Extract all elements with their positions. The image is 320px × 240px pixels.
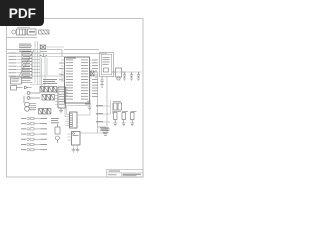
ground (130, 120, 134, 126)
ground (88, 107, 92, 110)
crystal Y1 (40, 45, 47, 57)
node labels text block (19, 44, 32, 52)
IC U3 (68, 132, 81, 146)
buzzer LS1 (24, 96, 36, 111)
resistor R6 (114, 113, 135, 120)
capacitor C11 (123, 72, 126, 81)
border frame (7, 19, 144, 178)
U1 right pin stubs (90, 60, 92, 96)
resistor network RN1 (40, 87, 57, 93)
ground (72, 148, 76, 152)
LED D2 (27, 97, 40, 100)
ground (122, 120, 126, 126)
svg-text:PDF: PDF (9, 6, 36, 21)
title block (107, 170, 144, 178)
net label rows right (96, 105, 110, 122)
wire (111, 100, 113, 114)
IC U2 (55, 87, 68, 108)
ground (59, 108, 63, 113)
U1 right net labels (92, 60, 98, 97)
resistor R5 (114, 103, 122, 110)
wire (65, 103, 90, 107)
net label (85, 101, 91, 105)
wire (7, 37, 37, 39)
connector J3 (11, 77, 33, 84)
ground large (98, 127, 111, 135)
wire (7, 49, 62, 53)
capacitor C10 with ground (100, 77, 104, 87)
wire (44, 47, 65, 57)
LED D1 (27, 92, 40, 95)
resistor RN0 (39, 30, 50, 34)
wire (40, 75, 64, 77)
capacitor C12 (130, 72, 133, 81)
main MCU U1 (59, 57, 98, 103)
wire (45, 57, 47, 88)
wire (62, 49, 107, 57)
capacitor C13 (137, 72, 140, 81)
header P2 rows (21, 117, 47, 151)
connector J2 (65, 100, 90, 128)
resistor network RN2 (42, 95, 54, 101)
crystal X2 cluster (91, 70, 98, 78)
wire (80, 77, 107, 133)
ground (113, 120, 117, 126)
transistor Q1 cluster (112, 68, 126, 80)
connector P1 (12, 29, 36, 35)
PDF badge (0, 0, 44, 26)
net names text block (43, 79, 57, 84)
wire bus vertical (30, 41, 44, 92)
wire diagonal (19, 50, 34, 76)
U1 part name (66, 57, 76, 60)
value labels (113, 101, 137, 112)
text block (51, 118, 59, 123)
U1 left pin stubs (61, 60, 65, 81)
transistor Q2 (55, 124, 60, 143)
wire (74, 145, 78, 148)
switch S1 (11, 86, 32, 91)
ground (76, 148, 80, 152)
U1 left outside labels (59, 63, 64, 81)
wire (97, 72, 99, 133)
connector J1 pin ladder (9, 50, 41, 77)
resistor network RN3 (39, 109, 51, 115)
text block (100, 128, 109, 131)
wire (112, 71, 142, 73)
module U4 nested boxes (100, 53, 114, 77)
